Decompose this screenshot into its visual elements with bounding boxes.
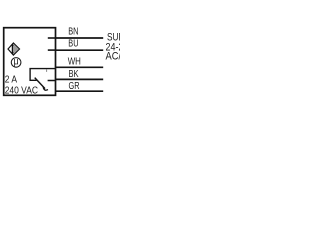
- svg-text:GR: GR: [69, 81, 80, 92]
- BN terminal stub: [48, 37, 56, 39]
- microprocessor symbol (circle with mu): [11, 57, 21, 68]
- background: [0, 0, 120, 120]
- svg-text:AC/DC: AC/DC: [106, 50, 121, 62]
- relay contact: NC fixed contact stub: [46, 69, 48, 72]
- wire WH: [55, 66, 103, 68]
- level sensor symbol (diamond): [8, 43, 20, 55]
- wire BN: [55, 37, 103, 39]
- relay contact: fixed contact hook: [43, 87, 48, 90]
- relay contact: movable arm: [35, 78, 45, 89]
- svg-text:WH: WH: [68, 56, 81, 67]
- wire GR: [55, 90, 103, 92]
- svg-text:240 VAC: 240 VAC: [5, 85, 39, 97]
- svg-text:BU: BU: [68, 39, 78, 50]
- BU terminal stub: [48, 49, 56, 51]
- svg-text:BN: BN: [68, 26, 78, 37]
- svg-text:μ: μ: [14, 57, 19, 68]
- wire BK: [55, 78, 103, 80]
- relay contact: BK terminal stub: [48, 80, 56, 82]
- relay contact: common feed line (down from WH rail): [30, 69, 56, 81]
- wire BU: [55, 49, 103, 51]
- svg-text:BK: BK: [69, 69, 79, 80]
- sensor housing box U1: [4, 28, 56, 96]
